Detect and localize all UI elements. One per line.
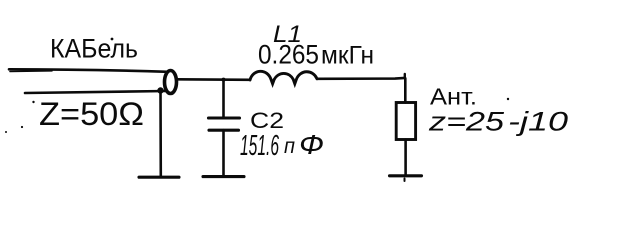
wire: C2 to ground	[222, 130, 225, 176]
label "0.265 мкГн" (L1 value)	[258, 40, 374, 70]
ground (right, antenna)	[390, 174, 422, 177]
coax cable top wire	[9, 69, 168, 72]
wire: center conductor from ellipse to L1	[177, 78, 251, 81]
stray ink marks	[5, 98, 509, 133]
coax cable end ellipse	[165, 71, 177, 94]
capacitor C2 top lead	[222, 80, 225, 118]
wire: resistor to ground	[404, 140, 407, 176]
label "C2"	[250, 108, 284, 133]
svg-text:КАБель: КАБель	[50, 34, 138, 64]
svg-text:-j10: -j10	[508, 107, 568, 137]
wire: coax shield down to ground	[159, 91, 162, 177]
wire overshoot hook at corner	[404, 74, 406, 78]
inductor L1	[250, 71, 317, 84]
label "Z = 50 Ω"	[39, 96, 144, 132]
ground (center, C2)	[203, 175, 244, 178]
wire: L1 to antenna branch	[317, 77, 405, 81]
svg-text:мкГн: мкГн	[321, 42, 374, 70]
capacitor C2 plates	[209, 118, 240, 130]
node: junction with C2 branch	[222, 78, 226, 82]
wire: down to antenna resistor	[404, 78, 407, 102]
svg-text:Ф: Ф	[299, 129, 324, 160]
label "151.6 пФ" (C2 value)	[240, 129, 324, 162]
coax top wire overdraw dash	[10, 70, 52, 73]
svg-text:151.6: 151.6	[240, 130, 279, 162]
label "L1"	[273, 21, 302, 48]
svg-text:0.265: 0.265	[258, 40, 319, 70]
junction blob at coax shield	[157, 87, 163, 93]
resistor (antenna load)	[396, 103, 415, 140]
svg-text:z=25: z=25	[428, 107, 505, 137]
label "Кабель" (cable)	[50, 34, 138, 64]
label "z = 25 - j10" (antenna impedance)	[428, 107, 568, 137]
svg-text:Z=50Ω: Z=50Ω	[39, 96, 144, 132]
svg-text:п: п	[284, 135, 295, 158]
ground tick mark	[404, 179, 406, 182]
label "Ант." (antenna)	[430, 84, 477, 110]
ground (left, coax shield)	[139, 176, 179, 179]
coax cable bottom wire	[25, 91, 167, 93]
